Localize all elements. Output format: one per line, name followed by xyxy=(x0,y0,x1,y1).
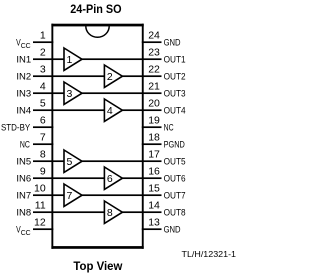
op-amp buffer 3 (triangle) xyxy=(64,82,82,104)
svg-text:8: 8 xyxy=(40,149,46,161)
op-amp buffer 5 (triangle) xyxy=(64,150,82,172)
svg-text:6: 6 xyxy=(107,173,113,185)
svg-text:OUT6: OUT6 xyxy=(164,173,186,184)
svg-text:4: 4 xyxy=(107,105,113,117)
svg-text:STD-BY: STD-BY xyxy=(1,122,31,133)
svg-text:22: 22 xyxy=(148,64,160,76)
svg-text:Top View: Top View xyxy=(73,261,122,273)
pin 19 stub (NC) xyxy=(142,126,162,128)
svg-text:3: 3 xyxy=(66,88,72,100)
svg-text:23: 23 xyxy=(148,47,160,59)
wire: buffer 2 output to pin 22 (OUT2) xyxy=(121,75,161,77)
svg-text:2: 2 xyxy=(107,71,113,83)
pin 6 stub (STD-BY) xyxy=(33,126,53,128)
pin 1 stub (VCC) xyxy=(33,41,53,43)
wire: pin 5 (IN4) to buffer 4 input xyxy=(33,109,105,111)
pin 12 stub (VCC) xyxy=(33,228,53,230)
svg-text:13: 13 xyxy=(148,217,160,229)
wire: pin 4 (IN3) to buffer 3 input xyxy=(33,92,65,94)
wire: pin 2 (IN1) to buffer 1 input xyxy=(33,58,65,60)
op-amp buffer 2 (triangle) xyxy=(104,65,122,87)
pin 18 stub (PGND) xyxy=(142,143,162,145)
pin 24 stub (GND) xyxy=(142,41,162,43)
svg-text:VCC: VCC xyxy=(16,37,31,50)
svg-text:4: 4 xyxy=(40,81,46,93)
svg-text:11: 11 xyxy=(35,200,46,212)
svg-text:IN8: IN8 xyxy=(16,207,31,218)
svg-text:IN1: IN1 xyxy=(16,54,31,65)
wire: buffer 8 output to pin 14 (OUT8) xyxy=(121,211,161,213)
wire: buffer 5 output to pin 17 (OUT5) xyxy=(81,160,162,162)
svg-text:1: 1 xyxy=(66,54,72,66)
wire: pin 8 (IN5) to buffer 5 input xyxy=(33,160,65,162)
op-amp buffer 4 (triangle) xyxy=(104,99,122,121)
wire: pin 9 (IN6) to buffer 6 input xyxy=(33,177,105,179)
svg-text:GND: GND xyxy=(164,37,181,48)
svg-text:IN5: IN5 xyxy=(16,156,31,167)
svg-text:5: 5 xyxy=(40,98,46,110)
op-amp buffer 6 (triangle) xyxy=(104,167,122,189)
svg-text:9: 9 xyxy=(40,166,46,178)
svg-text:OUT5: OUT5 xyxy=(164,156,186,167)
svg-text:GND: GND xyxy=(164,224,181,235)
svg-text:PGND: PGND xyxy=(164,139,185,150)
svg-text:19: 19 xyxy=(148,115,160,127)
svg-text:21: 21 xyxy=(148,81,160,93)
svg-text:16: 16 xyxy=(148,166,160,178)
wire: buffer 4 output to pin 20 (OUT4) xyxy=(121,109,161,111)
svg-text:IN4: IN4 xyxy=(16,105,31,116)
op-amp buffer 7 (triangle) xyxy=(64,184,82,206)
svg-text:2: 2 xyxy=(40,47,46,59)
wire: buffer 3 output to pin 21 (OUT3) xyxy=(81,92,162,94)
wire: pin 3 (IN2) to buffer 2 input xyxy=(33,75,105,77)
svg-text:15: 15 xyxy=(148,183,160,195)
svg-text:NC: NC xyxy=(20,139,30,150)
svg-text:7: 7 xyxy=(66,190,72,202)
pin-1 index notch (top-center semicircle) xyxy=(86,26,109,37)
svg-text:24-Pin SO: 24-Pin SO xyxy=(70,2,121,16)
svg-text:6: 6 xyxy=(40,115,46,127)
svg-text:IN6: IN6 xyxy=(16,173,31,184)
svg-text:18: 18 xyxy=(148,132,160,144)
svg-text:VCC: VCC xyxy=(16,224,31,237)
svg-text:IN2: IN2 xyxy=(16,71,31,82)
op-amp buffer 1 (triangle) xyxy=(64,48,82,70)
wire: buffer 1 output to pin 23 (OUT1) xyxy=(81,58,162,60)
op-amp buffer 8 (triangle) xyxy=(104,201,122,223)
svg-text:OUT7: OUT7 xyxy=(164,190,186,201)
svg-text:OUT1: OUT1 xyxy=(164,54,186,65)
svg-text:24: 24 xyxy=(148,30,160,42)
svg-text:12: 12 xyxy=(34,217,46,229)
svg-text:8: 8 xyxy=(107,207,113,219)
svg-text:5: 5 xyxy=(66,156,72,168)
svg-text:7: 7 xyxy=(40,132,46,144)
svg-text:OUT8: OUT8 xyxy=(164,207,186,218)
svg-text:OUT3: OUT3 xyxy=(164,88,186,99)
svg-text:14: 14 xyxy=(148,200,160,212)
svg-text:20: 20 xyxy=(148,98,160,110)
svg-text:IN7: IN7 xyxy=(16,190,31,201)
svg-text:10: 10 xyxy=(34,183,46,195)
pin 7 stub (NC) xyxy=(33,143,53,145)
svg-text:OUT4: OUT4 xyxy=(164,105,186,116)
svg-text:1: 1 xyxy=(40,30,46,42)
svg-text:17: 17 xyxy=(148,149,160,161)
wire: pin 10 (IN7) to buffer 7 input xyxy=(33,194,65,196)
svg-text:3: 3 xyxy=(40,64,46,76)
wire: pin 11 (IN8) to buffer 8 input xyxy=(33,211,105,213)
svg-text:IN3: IN3 xyxy=(16,88,31,99)
svg-text:OUT2: OUT2 xyxy=(164,71,186,82)
svg-text:NC: NC xyxy=(164,122,174,133)
IC package body U1 (24-pin SO outline) xyxy=(51,24,143,249)
wire: buffer 7 output to pin 15 (OUT7) xyxy=(81,194,162,196)
wire: buffer 6 output to pin 16 (OUT6) xyxy=(121,177,161,179)
pin 13 stub (GND) xyxy=(142,228,162,230)
svg-text:TL/H/12321-1: TL/H/12321-1 xyxy=(182,250,237,259)
